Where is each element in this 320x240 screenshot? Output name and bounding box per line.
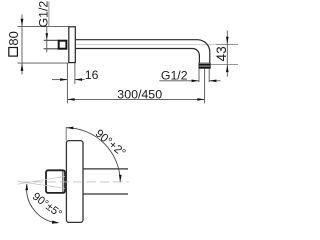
- node: square-80 bottom arrow: [21, 64, 24, 71]
- wire: arm centerline (43 top extension): [76, 43, 238, 45]
- wire: minus-5 tolerance ray: [18, 176, 66, 184]
- svg-text:80: 80: [6, 31, 21, 45]
- node: 43 bottom arrow: [226, 65, 229, 72]
- svg-text:G1/2: G1/2: [161, 68, 188, 82]
- node: 90+2 arc start arrow: [66, 127, 73, 130]
- node: 90+2 arc end arrow: [119, 175, 122, 182]
- wire: plus-5 tolerance ray: [18, 181, 66, 188]
- node: lower nut block: [46, 170, 65, 193]
- node: mounting nut block: [59, 41, 67, 49]
- wire: 16 right extension line: [74, 63, 76, 84]
- wire: lower nut inner line: [62, 171, 64, 192]
- wire: square-80 top extension / G1/2 shelf: [18, 26, 69, 28]
- wire: arm tube inner contour: [76, 49, 200, 64]
- node: lower wall line: [65, 127, 67, 140]
- wire: square-80 dimension line: [21, 15, 23, 75]
- wire: lower dashed centerline: [20, 181, 129, 183]
- wire: G1/2 outlet right arrow tail: [209, 80, 220, 82]
- wire: lower arm bottom line: [83, 193, 128, 195]
- svg-text:300/450: 300/450: [117, 88, 162, 102]
- wire: 43 top extension dark segment: [216, 43, 238, 45]
- wire: 90+2 angle arc: [66, 128, 120, 182]
- wire: tip left extension line: [198, 68, 200, 82]
- node: G1/2 outlet right arrow: [209, 80, 216, 83]
- wire: 300/450 dimension line: [67, 98, 204, 100]
- node: square symbol of label square-80: [9, 48, 18, 57]
- svg-text:43: 43: [214, 46, 229, 61]
- svg-text:16: 16: [85, 68, 99, 82]
- node: square-80 top arrow: [21, 19, 24, 26]
- wire: G1/2 wall underline: [48, 2, 50, 27]
- node: G1/2 wall leader arrow: [46, 33, 49, 40]
- node: 16 left arrow: [60, 78, 67, 81]
- wire: G1/2 wall leader line: [46, 27, 48, 53]
- wire: G1/2 outlet leader tail: [159, 80, 199, 82]
- node: wall flange plate (side view): [69, 27, 76, 63]
- wire: 43 bottom extension line: [211, 63, 239, 65]
- wire: arm tube outer contour with bend: [76, 40, 210, 64]
- wire: tip centerline extension: [204, 68, 206, 103]
- node: 16 right arrow: [75, 78, 82, 81]
- node: wall thread stub G1/2: [44, 40, 59, 49]
- wire: 43 dimension line: [226, 31, 228, 77]
- node: 300/450 right arrow: [197, 98, 204, 101]
- wire: lower arm top line: [83, 168, 128, 170]
- wire: 16/300 left extension line: [66, 63, 68, 103]
- node: lower flange plate: [66, 141, 83, 223]
- node: 43 top arrow: [226, 37, 229, 44]
- node: 90+-5 arc end arrow: [52, 221, 59, 224]
- wire: 90+-5 angle arc: [27, 184, 58, 223]
- node: threaded outlet tip: [199, 63, 210, 68]
- wire: square-80 bottom extension: [18, 62, 69, 64]
- wire: 16 left arrow tail: [52, 79, 67, 81]
- node: 90+-5 arc start arrow: [25, 183, 28, 190]
- node: G1/2 outlet left arrow: [192, 80, 199, 83]
- wire: 16 right arrow tail: [75, 79, 85, 81]
- node: 300/450 left arrow: [67, 98, 74, 101]
- wire: tip right extension line: [208, 68, 210, 82]
